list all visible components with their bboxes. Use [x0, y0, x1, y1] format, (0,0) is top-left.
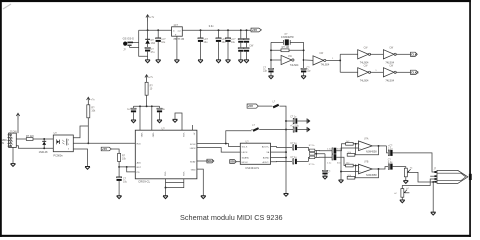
resistor R8: [309, 153, 314, 156]
wire arrow to R6: [146, 81, 148, 84]
wire VSS staple: [175, 113, 182, 130]
resistor R13 input B: [346, 164, 354, 167]
net flag +5V reset: [101, 147, 111, 151]
wire fb A loop: [355, 146, 379, 155]
frame border left: [0, 0, 2, 237]
wire regulator ground pin: [176, 36, 178, 60]
svg-text:AOUT+: AOUT+: [262, 146, 270, 149]
svg-text:R? 220: R? 220: [26, 135, 34, 138]
svg-text:1N4: 1N4: [151, 42, 156, 45]
svg-text:2.2u: 2.2u: [388, 148, 393, 150]
node opamp A fb: [378, 145, 380, 147]
capacitor C7 below C6: [238, 48, 243, 60]
svg-text:+C?: +C?: [388, 146, 393, 148]
svg-text:1u: 1u: [127, 109, 130, 111]
svg-text:C?: C?: [327, 172, 331, 174]
svg-text:+5V: +5V: [252, 28, 257, 32]
svg-text:2.2u: 2.2u: [327, 163, 332, 165]
ground under regulator: [174, 60, 179, 63]
svg-text:74LS04: 74LS04: [360, 61, 369, 64]
node osc left feedback: [270, 49, 272, 51]
svg-text:VSS: VSS: [182, 172, 184, 177]
node bottom: [165, 187, 167, 189]
net flag SDATA a: [207, 159, 214, 163]
capacitor C11 22p left: [268, 68, 273, 75]
svg-text:PC900v: PC900v: [53, 153, 63, 157]
svg-text:+C? 10u: +C? 10u: [290, 125, 299, 127]
svg-text:LRCK: LRCK: [242, 152, 248, 154]
resistor R2 1M feedback: [281, 49, 289, 52]
wire connector ground drop: [12, 147, 14, 163]
wire opto gnd pin: [73, 149, 87, 166]
net flag +5V rail end: [251, 28, 261, 32]
ground under P1: [403, 181, 408, 184]
inverter U2E: [358, 68, 371, 77]
wire DIN pin4 to R3: [16, 138, 26, 140]
ground under C12: [301, 76, 306, 79]
svg-text:NJM4558: NJM4558: [366, 174, 377, 177]
svg-text:RxD: RxD: [137, 144, 142, 146]
node D2 top: [43, 138, 45, 140]
svg-text:CW: CW: [389, 48, 394, 50]
svg-text:L?: L?: [273, 102, 276, 104]
wire XT stub: [192, 125, 194, 130]
svg-text:Schemat modulu MIDI CS 9236: Schemat modulu MIDI CS 9236: [180, 213, 283, 222]
svg-text:AOUT-: AOUT-: [263, 161, 270, 164]
svg-text:74LS04: 74LS04: [385, 79, 394, 82]
wire arrow to rail: [147, 22, 149, 31]
wire sleeve to ground: [432, 182, 434, 212]
svg-text:J? DIN: J? DIN: [9, 130, 17, 133]
wire SCLK to staple and DAC: [197, 144, 240, 147]
svg-text:+c: +c: [410, 167, 413, 169]
net flag SDATA b: [230, 160, 237, 164]
node sleeve: [432, 181, 434, 183]
jack J3 TRS plug: [434, 170, 471, 183]
wire P1 bottom to ground: [405, 177, 407, 181]
ground under C2: [156, 60, 161, 63]
node osc input: [270, 59, 272, 61]
wire P2 wiper stub: [405, 192, 409, 194]
wire filter left vertical top: [308, 147, 311, 150]
wire VDD pin1: [139, 106, 141, 130]
svg-text:SCLK: SCLK: [242, 147, 248, 149]
capacitor C6: [238, 30, 243, 47]
node dac AGND pin: [285, 157, 287, 159]
svg-text:CW: CW: [288, 56, 293, 58]
ground under C5: [226, 60, 231, 63]
node D2 bottom: [43, 147, 45, 149]
terminal arrow VA1: [307, 118, 310, 123]
node C3: [200, 29, 202, 31]
wire DIN pin5 lower: [16, 146, 53, 149]
wire reset node to C13: [118, 167, 120, 177]
wire flag to R5: [111, 149, 119, 153]
inverter U2B buffer: [313, 56, 326, 65]
wire filter mid cap drop: [324, 154, 326, 170]
svg-text:NJM4558: NJM4558: [366, 151, 377, 154]
node filter mid: [315, 153, 317, 155]
corner smudge: [3, 4, 11, 9]
node C4: [218, 29, 220, 31]
node osc output: [303, 59, 305, 61]
resistor R11 feedback B: [347, 176, 355, 179]
wire feedback row: [271, 49, 304, 51]
wire connector shield up: [17, 120, 19, 133]
wire C18 to filter: [297, 146, 309, 148]
svg-text:SDA: SDA: [207, 159, 214, 163]
wire arrow to R4: [87, 103, 89, 106]
wire R4 down: [87, 118, 89, 144]
svg-text:+?v: +?v: [149, 76, 154, 79]
capacitor C5: [225, 30, 230, 60]
svg-text:CRG9-CL: CRG9-CL: [138, 180, 150, 184]
wire SDATA out: [197, 160, 207, 162]
power arrow +5V pullup: [87, 97, 90, 104]
svg-text:+c: +c: [394, 193, 397, 195]
svg-text:out: out: [178, 29, 181, 32]
ground under C7: [238, 60, 243, 63]
svg-text:C?: C?: [388, 159, 392, 161]
capacitor C4: [216, 30, 221, 60]
svg-text:74LS04: 74LS04: [385, 61, 394, 64]
wire flag to DAC pin4: [236, 161, 240, 163]
svg-text:74LS04: 74LS04: [360, 79, 369, 82]
power connector J1 barrel jack: [123, 42, 133, 48]
ground under connector: [11, 164, 16, 167]
svg-text:10u: 10u: [123, 180, 128, 183]
resistor R10 feedback A: [347, 154, 355, 157]
node SCLK staple: [225, 143, 227, 145]
capacitor C1: [145, 47, 150, 59]
wire opto vcc pin: [73, 126, 88, 138]
wire rail output segment: [182, 29, 251, 31]
wire R5 to reset node: [118, 162, 120, 167]
svg-text:CW: CW: [249, 44, 254, 47]
wire osc top horizontal: [271, 41, 304, 43]
svg-text:74LS04: 74LS04: [290, 64, 299, 67]
node bias B: [340, 171, 342, 173]
node supply pin1: [139, 105, 141, 107]
wire opamp B out: [372, 167, 388, 169]
capacitor C13: [117, 177, 122, 196]
power arrow above connector: [16, 113, 19, 120]
IC U1 CS9236 box: [135, 130, 197, 179]
wire GND right pin: [197, 169, 203, 196]
wire opto output to IC: [73, 142, 135, 144]
resistor R7: [309, 149, 314, 152]
wire bottom row in: [340, 71, 358, 73]
capacitor C19 right channel: [293, 159, 297, 164]
svg-text:SDATA: SDATA: [242, 157, 250, 160]
svg-text:22p: 22p: [263, 70, 268, 73]
frame border bottom: [0, 235, 471, 237]
svg-text:1u: 1u: [162, 109, 165, 111]
capacitor C12 22p right: [301, 68, 306, 75]
node minus B: [355, 165, 357, 167]
wire osc input: [271, 59, 281, 61]
DAC U4 CS4334 box: [240, 143, 270, 164]
svg-text:AGND: AGND: [263, 157, 270, 160]
wire VA staple up: [226, 131, 252, 144]
svg-text:PD: PD: [137, 172, 140, 174]
wire P2 bottom to ground: [401, 197, 403, 200]
wire AOUTL row: [271, 146, 293, 149]
ground under opto: [85, 167, 90, 170]
wire C22 to opamp B: [336, 157, 358, 165]
wire fb B to minus: [354, 166, 357, 178]
capacitor C20: [322, 170, 327, 176]
wire opamp A out: [372, 145, 386, 147]
wire row L to cap: [316, 149, 332, 151]
power flag +5V top arrow: [146, 15, 149, 22]
svg-text:10k: 10k: [91, 110, 96, 113]
wire bead2 left stub: [252, 129, 287, 131]
wire A out to C23: [387, 146, 389, 153]
svg-text:1: 1: [375, 70, 377, 72]
capacitor C8: [244, 30, 249, 47]
svg-text:U?B: U?B: [364, 162, 369, 164]
power arrow above R6: [145, 75, 148, 82]
wire R6 to supply rail: [146, 95, 148, 106]
net flag clock out 1: [411, 52, 418, 56]
capacitor C9 below C8: [244, 48, 249, 60]
svg-text:J?: J?: [123, 49, 126, 52]
node VA cap2: [285, 129, 287, 131]
wire filter left vertical bottom: [308, 157, 311, 161]
capacitor C14 left: [131, 106, 136, 120]
ferrite bead L1: [273, 104, 280, 109]
wire J1 to input node: [131, 42, 139, 47]
node C8: [246, 29, 248, 31]
frame border top: [0, 0, 471, 2]
capacitor C22 electrolytic R: [332, 154, 336, 160]
svg-text:C? 1u: C? 1u: [290, 157, 297, 159]
svg-text:10u: 10u: [161, 41, 166, 44]
connector J2 MIDI DIN: [7, 133, 16, 147]
wire bias rail: [341, 148, 359, 180]
node pullup junction: [87, 142, 89, 144]
node opamp B fb: [378, 168, 380, 170]
wire top row mid: [370, 53, 384, 55]
capacitor C18 left channel: [293, 145, 297, 150]
resistor R3 220: [26, 138, 33, 141]
resistor R5 10k: [118, 153, 121, 161]
svg-text:VDD: VDD: [140, 133, 142, 138]
svg-text:CLK2: CLK2: [411, 70, 419, 74]
ground under C11: [269, 76, 274, 79]
ground under C13: [117, 196, 122, 199]
wire P1 wiper to jack pin4: [409, 172, 435, 182]
svg-text:CW: CW: [364, 66, 369, 68]
node rail/diode junction: [147, 29, 149, 31]
wire C21 to opamp A: [336, 144, 358, 151]
svg-text:SDAT: SDAT: [190, 160, 196, 163]
ground VA bottom: [284, 194, 289, 197]
wire jack pin3 to pot P2: [402, 179, 434, 189]
wire fb A to minus: [354, 144, 357, 155]
wire osc left vertical: [270, 42, 272, 68]
wire osc right vertical: [303, 42, 305, 68]
node C5: [227, 29, 229, 31]
svg-text:C? 1u: C? 1u: [290, 117, 297, 119]
node minus A: [355, 143, 357, 145]
potentiometer P2: [401, 189, 407, 198]
svg-text:CLK: CLK: [411, 52, 418, 56]
wire IC supply rail: [134, 105, 160, 107]
resistor R9: [309, 156, 314, 159]
ground right of IC: [201, 196, 206, 199]
svg-text:74LS04: 74LS04: [321, 63, 330, 66]
wire flag to bead: [258, 105, 272, 107]
crystal X1: [283, 39, 290, 45]
wire input riser: [139, 30, 148, 56]
op-amp U6B: [359, 164, 373, 174]
svg-text:+?v: +?v: [150, 16, 155, 19]
svg-text:SDA: SDA: [230, 160, 237, 164]
svg-text:VDD: VDD: [152, 133, 154, 138]
node VA cap1: [285, 120, 287, 122]
wire AOUTR row: [271, 160, 293, 162]
resistor R4 pullup: [87, 105, 90, 118]
ground under C14: [131, 120, 136, 123]
net flag clock out 2: [411, 70, 419, 74]
wire VDD pin2: [151, 106, 153, 130]
node reset: [118, 166, 120, 168]
svg-text:C? 1u: C? 1u: [290, 143, 297, 145]
capacitor C21 electrolytic L: [332, 148, 336, 154]
wire C19 to filter: [297, 160, 309, 162]
wire buffer out to split: [326, 59, 340, 61]
node supply R6: [146, 105, 148, 107]
capacitor C15 right: [157, 106, 162, 120]
wire top row out: [396, 53, 411, 55]
node osc right feedback: [303, 49, 305, 51]
svg-text:47u: 47u: [151, 51, 156, 54]
svg-text:10u: 10u: [204, 41, 209, 44]
node split: [339, 59, 341, 61]
svg-text:SCLK: SCLK: [190, 144, 196, 146]
svg-text:GND: GND: [191, 170, 196, 172]
svg-text:22p: 22p: [306, 70, 311, 73]
wire osc out to buffer: [305, 59, 313, 61]
capacitor C16: [286, 118, 307, 123]
ground under C15: [157, 120, 162, 123]
svg-text:J?: J?: [434, 168, 437, 171]
svg-text:+?v: +?v: [91, 99, 96, 102]
svg-text:1: 1: [332, 58, 334, 60]
svg-text:U?A: U?A: [364, 137, 369, 140]
wire fb B loop: [355, 169, 379, 178]
node supply pin2: [151, 105, 153, 107]
svg-text:+5V: +5V: [102, 147, 107, 151]
capacitor C23: [388, 150, 392, 156]
svg-text:RST: RST: [137, 167, 142, 169]
ground under C20: [323, 176, 328, 179]
ground under P2: [400, 200, 405, 203]
svg-text:R? 1k: R? 1k: [309, 145, 316, 147]
svg-text:3.3v: 3.3v: [209, 24, 215, 28]
resistor R6: [145, 82, 148, 95]
ground jack sleeve: [431, 212, 436, 215]
terminal arrow VA2: [307, 127, 310, 132]
wire dac VA pin: [271, 151, 287, 153]
svg-text:VSS: VSS: [182, 133, 184, 138]
svg-text:1N4148: 1N4148: [39, 151, 48, 154]
optocoupler U3 PC900V: [53, 135, 73, 152]
ground under IC bottom: [163, 196, 168, 199]
svg-text:9.8304MHz: 9.8304MHz: [281, 36, 295, 39]
capacitor C3: [198, 30, 203, 60]
wire bead to VA vertical: [280, 106, 287, 193]
svg-text:VSS: VSS: [164, 172, 166, 177]
frame border right: [469, 0, 471, 237]
wire row R to cap: [316, 156, 332, 158]
op-amp U6A: [359, 141, 373, 151]
svg-text:2.2u: 2.2u: [327, 149, 332, 151]
svg-text:10k: 10k: [122, 158, 127, 161]
svg-text:CW: CW: [364, 48, 369, 50]
inverter U2A: [281, 55, 294, 64]
ground bias: [339, 180, 344, 183]
ferrite bead L2: [253, 127, 260, 132]
ground under D1/C1: [145, 60, 150, 63]
wire split vertical: [339, 54, 341, 72]
capacitor C24: [388, 164, 392, 170]
node reset split: [126, 166, 128, 168]
inverter U2F: [383, 68, 396, 77]
wire bottom pin U: [166, 179, 184, 188]
wire rail input segment: [139, 29, 172, 31]
wire bottom to ground: [165, 188, 167, 196]
wire dac AGND pin: [271, 157, 287, 159]
ground under C3: [198, 60, 203, 63]
svg-text:+c: +c: [406, 188, 409, 190]
wire bottom row out: [396, 71, 411, 73]
wire filter mid verticals: [315, 150, 325, 157]
svg-text:10u: 10u: [231, 41, 236, 44]
potentiometer P1: [404, 168, 410, 177]
svg-text:L?: L?: [252, 125, 255, 127]
svg-text:10: 10: [150, 88, 153, 91]
diode D2 1N4148: [42, 139, 46, 148]
svg-text:+5V: +5V: [248, 104, 253, 108]
svg-text:CW: CW: [319, 53, 324, 55]
svg-text:R? 1k: R? 1k: [309, 164, 316, 166]
wire R3 to opto anode: [33, 138, 53, 140]
svg-text:R? 1M: R? 1M: [282, 46, 289, 49]
svg-text:1C?: 1C?: [173, 24, 178, 27]
svg-text:78LT7-05: 78LT7-05: [173, 37, 184, 41]
svg-text:CW: CW: [389, 66, 394, 68]
resistor R12 input A: [346, 143, 354, 146]
node dac VA pin: [285, 151, 287, 153]
svg-text:2.2u: 2.2u: [388, 162, 393, 164]
ground under C4: [216, 60, 221, 63]
inverter U2D: [383, 50, 396, 59]
capacitor C17: [286, 127, 307, 132]
svg-text:MCLK: MCLK: [242, 162, 249, 164]
wire LRCK to DAC: [197, 148, 240, 153]
node C2 junction: [157, 29, 159, 31]
wire bottom row mid: [370, 71, 384, 73]
wire C24 to pot P1: [393, 167, 406, 169]
inverter U2C: [358, 50, 371, 59]
wire jack pin2 stub: [430, 175, 434, 177]
node C6: [240, 29, 242, 31]
svg-text:IN: IN: [2, 142, 5, 145]
ground staple: [173, 119, 178, 122]
